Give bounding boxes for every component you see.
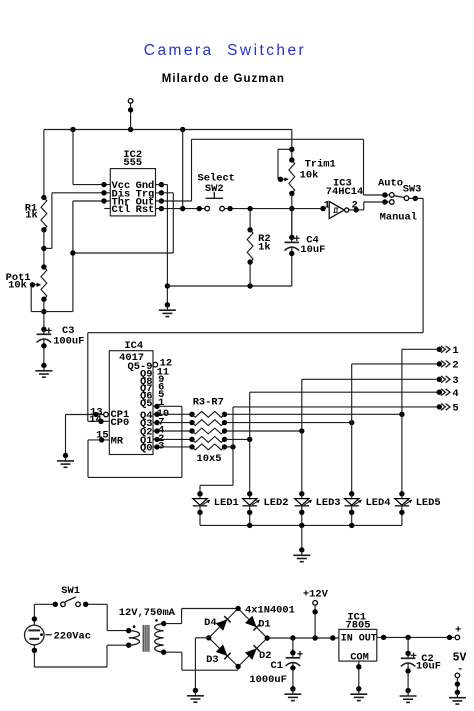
svg-text:7805: 7805 [346, 619, 371, 631]
svg-text:D3: D3 [206, 654, 218, 666]
svg-text:1k: 1k [258, 241, 270, 253]
svg-text:LED3: LED3 [316, 497, 341, 509]
svg-text:10uF: 10uF [300, 244, 325, 256]
svg-text:10k: 10k [300, 169, 319, 181]
svg-text:12V,750mA: 12V,750mA [119, 607, 176, 619]
svg-text:74HC14: 74HC14 [326, 186, 363, 198]
svg-text:LED2: LED2 [264, 497, 289, 509]
svg-text:+12V: +12V [303, 589, 329, 601]
svg-text:3: 3 [452, 375, 458, 387]
svg-text:D1: D1 [258, 618, 270, 630]
svg-text:LED5: LED5 [416, 497, 441, 509]
svg-text:100uF: 100uF [53, 336, 84, 348]
svg-text:5: 5 [452, 403, 458, 415]
svg-text:Q0: Q0 [140, 443, 152, 455]
svg-text:IC4: IC4 [124, 340, 143, 352]
svg-text:LED4: LED4 [366, 497, 391, 509]
svg-text:Rst: Rst [136, 204, 155, 216]
svg-text:SW3: SW3 [403, 183, 422, 195]
svg-text:10k: 10k [8, 280, 27, 292]
svg-text:4x1N4001: 4x1N4001 [245, 605, 295, 617]
svg-text:Camera Switcher: Camera Switcher [144, 42, 306, 59]
svg-text:MR: MR [111, 435, 124, 447]
svg-text:220Vac: 220Vac [54, 631, 91, 643]
svg-text:D4: D4 [204, 617, 216, 629]
svg-text:R3-R7: R3-R7 [193, 397, 224, 409]
svg-text:Q5: Q5 [140, 398, 152, 410]
svg-text:1000uF: 1000uF [249, 674, 286, 686]
svg-text:1: 1 [324, 200, 330, 212]
svg-text:Auto: Auto [378, 178, 403, 190]
svg-text:COM: COM [350, 652, 369, 664]
svg-text:10x5: 10x5 [197, 453, 222, 465]
svg-text:CP0: CP0 [111, 417, 130, 429]
svg-text:4: 4 [452, 388, 458, 400]
svg-text:SW1: SW1 [61, 585, 80, 597]
svg-text:Milardo de Guzman: Milardo de Guzman [162, 73, 285, 85]
svg-text:555: 555 [123, 157, 142, 169]
svg-text:SW2: SW2 [205, 183, 224, 195]
svg-text:10uF: 10uF [416, 661, 441, 673]
svg-text:+: + [455, 625, 461, 637]
svg-text:Manual: Manual [380, 211, 417, 223]
svg-text:C1: C1 [271, 660, 283, 672]
svg-text:2: 2 [452, 360, 458, 372]
svg-text:1: 1 [452, 345, 458, 357]
svg-text:1k: 1k [25, 210, 37, 222]
svg-text:IN OUT: IN OUT [341, 634, 377, 645]
svg-text:Ctl: Ctl [112, 204, 131, 216]
svg-text:LED1: LED1 [214, 497, 239, 509]
